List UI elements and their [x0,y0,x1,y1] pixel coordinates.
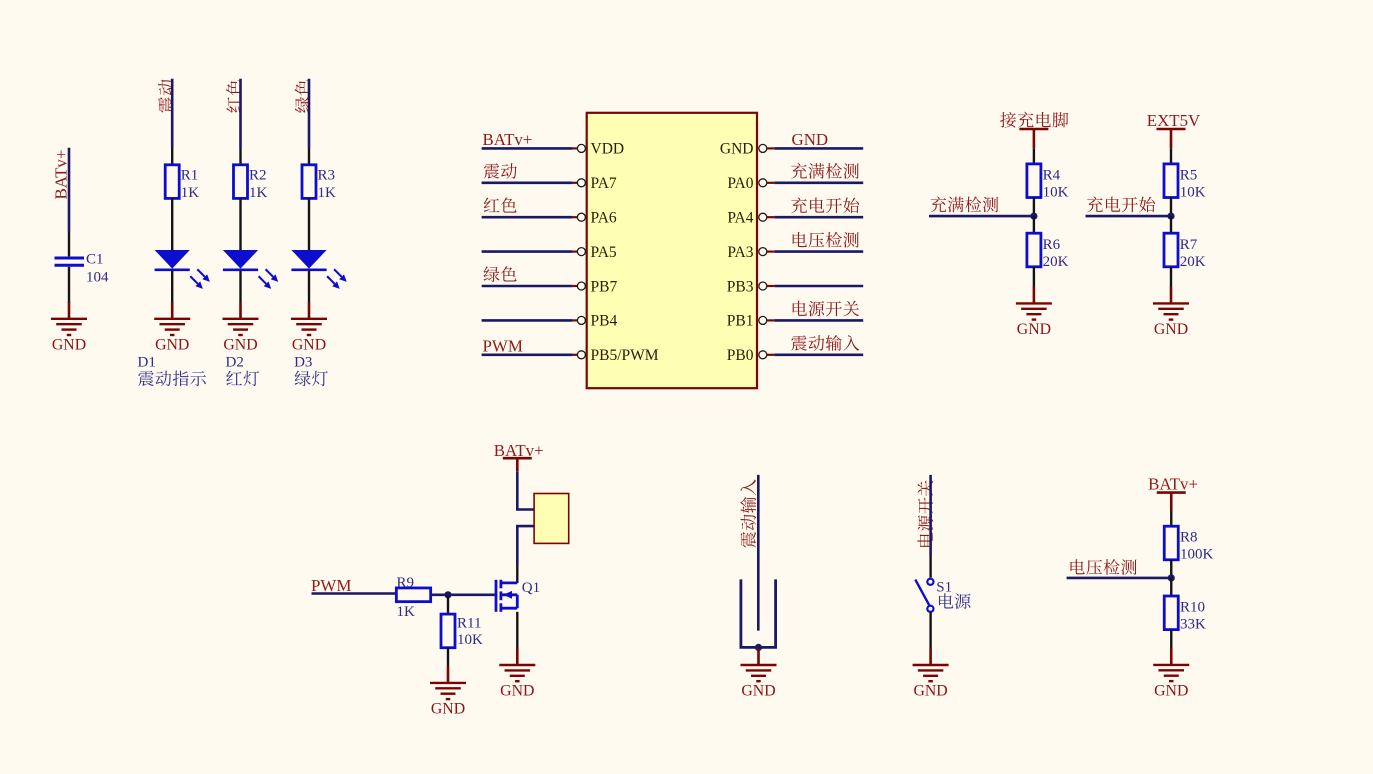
svg-text:BATv+: BATv+ [1148,474,1198,493]
svg-text:GND: GND [155,336,189,353]
svg-text:PWM: PWM [483,337,523,356]
svg-text:20K: 20K [1180,254,1206,270]
svg-text:GND: GND [223,336,257,353]
svg-text:20K: 20K [1043,254,1069,270]
svg-text:R10: R10 [1180,600,1205,616]
svg-text:PA7: PA7 [591,175,617,192]
svg-text:PA3: PA3 [727,244,753,261]
svg-text:GND: GND [1017,321,1051,338]
svg-text:PA0: PA0 [727,175,753,192]
svg-text:D3: D3 [294,355,312,371]
svg-text:VDD: VDD [591,141,625,158]
svg-text:100K: 100K [1180,547,1214,563]
svg-text:1K: 1K [249,185,268,201]
svg-text:C1: C1 [86,252,104,268]
svg-text:PB3: PB3 [727,278,754,295]
svg-text:GND: GND [792,130,829,149]
svg-text:GND: GND [720,141,754,158]
svg-text:R7: R7 [1180,237,1198,253]
svg-text:PB1: PB1 [727,313,754,330]
svg-text:GND: GND [52,336,86,353]
svg-text:EXT5V: EXT5V [1147,111,1201,130]
svg-text:GND: GND [431,701,465,718]
svg-text:D2: D2 [226,355,244,371]
svg-text:GND: GND [292,336,326,353]
svg-text:D1: D1 [138,355,156,371]
svg-text:GND: GND [1154,321,1188,338]
svg-text:R9: R9 [397,575,415,591]
svg-text:Q1: Q1 [522,580,540,596]
svg-text:R8: R8 [1180,530,1198,546]
svg-text:R2: R2 [249,168,267,184]
svg-text:GND: GND [1154,683,1188,700]
svg-text:PWM: PWM [311,576,351,595]
svg-text:1K: 1K [397,604,416,620]
svg-text:10K: 10K [457,632,483,648]
svg-text:R1: R1 [181,168,199,184]
svg-text:10K: 10K [1043,185,1069,201]
svg-text:10K: 10K [1180,185,1206,201]
svg-text:R3: R3 [318,168,336,184]
svg-text:PA6: PA6 [591,210,617,227]
svg-text:1K: 1K [318,185,337,201]
svg-text:PB5/PWM: PB5/PWM [591,347,659,364]
svg-text:R5: R5 [1180,168,1198,184]
svg-text:BATv+: BATv+ [483,130,533,149]
svg-text:GND: GND [741,683,775,700]
svg-text:R11: R11 [457,616,481,632]
svg-text:PA5: PA5 [591,244,617,261]
svg-text:S1: S1 [936,579,952,595]
svg-text:GND: GND [913,683,947,700]
svg-text:33K: 33K [1180,617,1206,633]
svg-text:1K: 1K [181,185,200,201]
svg-text:GND: GND [500,683,534,700]
svg-text:PB0: PB0 [727,347,754,364]
svg-text:104: 104 [86,270,109,286]
svg-text:R4: R4 [1043,168,1061,184]
svg-text:R6: R6 [1043,237,1061,253]
svg-text:PB4: PB4 [591,313,618,330]
svg-text:PA4: PA4 [727,210,753,227]
svg-text:PB7: PB7 [591,278,618,295]
